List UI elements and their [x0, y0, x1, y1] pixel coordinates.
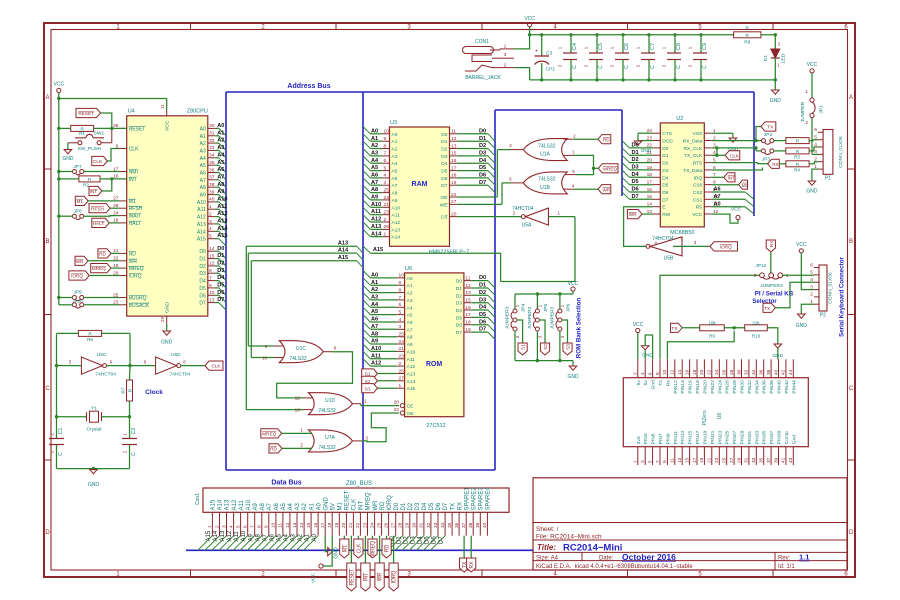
svg-text:D6: D6: [662, 190, 668, 196]
svg-text:R: R: [128, 388, 134, 392]
svg-text:PIN38: PIN38: [769, 380, 775, 394]
svg-text:WR: WR: [629, 212, 637, 217]
svg-text:28: 28: [729, 369, 735, 375]
svg-text:TX: TX: [767, 125, 774, 130]
svg-text:PIN26: PIN26: [725, 380, 731, 394]
svg-text:11: 11: [160, 104, 165, 109]
svg-text:10: 10: [662, 369, 668, 375]
svg-text:32: 32: [426, 522, 432, 528]
svg-text:CLK: CLK: [211, 364, 221, 369]
svg-text:D1: D1: [199, 257, 206, 263]
svg-text:D0: D0: [394, 502, 400, 510]
svg-text:A5: A5: [200, 163, 206, 169]
svg-text:PIN24: PIN24: [717, 380, 723, 394]
svg-text:OE: OE: [407, 411, 415, 417]
svg-text:27: 27: [399, 376, 405, 382]
svg-text:10: 10: [271, 522, 277, 528]
svg-text:5v: 5v: [636, 380, 642, 386]
svg-text:PIN42: PIN42: [784, 380, 790, 394]
svg-text:D1: D1: [479, 136, 486, 142]
svg-text:33: 33: [751, 457, 757, 463]
svg-text:31: 31: [744, 457, 750, 463]
svg-text:13: 13: [209, 297, 215, 303]
svg-text:D7: D7: [199, 301, 206, 307]
svg-text:D4: D4: [632, 172, 640, 178]
svg-text:D7: D7: [479, 327, 486, 333]
svg-text:U5B: U5B: [664, 256, 674, 262]
svg-text:U8: U8: [717, 413, 723, 420]
svg-text:Con1: Con1: [195, 493, 201, 505]
svg-text:3: 3: [209, 219, 212, 225]
svg-text:A0: A0: [371, 273, 378, 279]
svg-text:9: 9: [384, 136, 387, 142]
svg-text:IORQ: IORQ: [392, 571, 398, 584]
svg-text:BUSRQ: BUSRQ: [129, 296, 147, 302]
svg-text:RC2014−Mini: RC2014−Mini: [563, 543, 622, 554]
svg-text:A8: A8: [217, 182, 224, 188]
svg-text:VCC: VCC: [796, 242, 807, 248]
svg-text:5: 5: [384, 165, 387, 171]
svg-text:A7: A7: [714, 194, 721, 200]
svg-text:37: 37: [766, 457, 772, 463]
svg-text:PIN11: PIN11: [673, 431, 679, 444]
svg-text:A15: A15: [407, 386, 416, 392]
svg-text:M1: M1: [129, 199, 136, 205]
svg-text:IORQ: IORQ: [387, 495, 393, 511]
svg-text:2: 2: [300, 443, 303, 449]
svg-text:7: 7: [250, 525, 256, 528]
svg-text:RD: RD: [270, 447, 277, 452]
svg-text:JUMPER3: JUMPER3: [505, 306, 511, 329]
svg-text:3: 3: [814, 149, 817, 155]
svg-text:28: 28: [398, 522, 404, 528]
svg-text:6: 6: [243, 525, 249, 528]
svg-text:M1: M1: [742, 183, 749, 188]
svg-text:D0: D0: [662, 146, 668, 152]
svg-text:R6: R6: [87, 337, 93, 342]
svg-text:A4: A4: [217, 152, 225, 158]
svg-text:B: B: [45, 239, 49, 245]
svg-text:6: 6: [384, 158, 387, 164]
svg-text:U2: U2: [676, 116, 683, 122]
svg-text:A13: A13: [338, 241, 348, 247]
svg-text:22k: 22k: [752, 321, 760, 326]
svg-text:WR: WR: [373, 500, 379, 511]
svg-text:7: 7: [384, 151, 387, 157]
svg-text:RX: RX: [772, 162, 779, 167]
svg-text:11: 11: [278, 523, 284, 528]
svg-text:A1: A1: [309, 502, 315, 510]
svg-text:A9: A9: [253, 502, 259, 510]
svg-text:D6: D6: [479, 173, 486, 179]
svg-text:D0: D0: [441, 132, 447, 138]
svg-text:A15: A15: [217, 233, 227, 239]
svg-text:5: 5: [209, 234, 212, 240]
svg-text:5: 5: [647, 460, 653, 463]
svg-text:5: 5: [814, 135, 817, 141]
svg-text:Comp: Comp: [784, 431, 790, 444]
svg-text:RD: RD: [99, 252, 106, 257]
svg-text:A6: A6: [407, 320, 413, 326]
svg-text:A11: A11: [197, 207, 206, 213]
svg-text:Tx: Tx: [658, 380, 664, 386]
svg-text:S1: S1: [521, 344, 526, 350]
svg-text:A1: A1: [200, 134, 206, 140]
svg-text:A2: A2: [200, 141, 206, 147]
svg-text:9: 9: [662, 460, 668, 463]
svg-text:16: 16: [684, 369, 690, 375]
svg-text:A12: A12: [197, 215, 206, 221]
svg-text:R8: R8: [744, 40, 750, 45]
svg-text:A7: A7: [217, 174, 224, 180]
svg-text:PIN29: PIN29: [740, 430, 746, 444]
svg-text:WAIT: WAIT: [129, 214, 141, 220]
svg-text:PIN22: PIN22: [710, 380, 716, 394]
svg-text:GND: GND: [567, 374, 579, 380]
svg-text:D3: D3: [441, 154, 447, 160]
svg-text:SPARE4: SPARE4: [486, 487, 492, 511]
svg-text:PIN35: PIN35: [762, 430, 768, 444]
svg-text:C3: C3: [546, 51, 553, 57]
svg-text:A11: A11: [371, 353, 381, 359]
svg-text:A1: A1: [371, 136, 378, 142]
svg-text:IORQ: IORQ: [71, 274, 83, 279]
svg-text:15: 15: [209, 253, 215, 259]
svg-text:74LS32: 74LS32: [289, 356, 306, 362]
svg-text:D7: D7: [217, 297, 224, 303]
svg-text:A15: A15: [197, 237, 206, 243]
svg-text:A8: A8: [260, 502, 266, 510]
svg-text:A10: A10: [392, 205, 401, 211]
svg-text:74HCT04: 74HCT04: [95, 372, 116, 378]
svg-text:31: 31: [209, 131, 215, 137]
svg-text:CS1: CS1: [693, 197, 703, 203]
svg-text:40: 40: [209, 197, 215, 203]
svg-text:INT: INT: [90, 189, 98, 194]
svg-text:1.1: 1.1: [799, 553, 809, 562]
svg-text:29: 29: [160, 317, 165, 322]
svg-text:25: 25: [722, 457, 728, 463]
svg-text:30: 30: [412, 522, 418, 528]
svg-text:A11: A11: [371, 209, 381, 215]
svg-text:6: 6: [647, 372, 653, 375]
svg-text:12: 12: [209, 261, 215, 267]
svg-text:A2: A2: [371, 143, 378, 149]
svg-text:29: 29: [405, 522, 411, 528]
svg-text:VCC: VCC: [568, 281, 579, 287]
svg-text:D2: D2: [217, 261, 224, 267]
svg-text:VCC: VCC: [692, 212, 703, 218]
svg-text:CLK: CLK: [93, 159, 103, 164]
svg-text:D6: D6: [217, 290, 224, 296]
svg-text:SPARE3: SPARE3: [479, 487, 485, 511]
svg-text:DCD: DCD: [662, 139, 673, 145]
svg-text:A13: A13: [392, 227, 401, 233]
svg-text:A7: A7: [407, 327, 413, 333]
svg-text:R10: R10: [752, 333, 761, 338]
svg-text:RX_CLK: RX_CLK: [683, 146, 703, 152]
svg-text:GND: GND: [641, 148, 652, 154]
svg-text:PIN18: PIN18: [695, 380, 701, 394]
svg-text:A: A: [849, 95, 853, 101]
svg-text:37: 37: [209, 175, 215, 181]
svg-text:20: 20: [451, 211, 457, 217]
svg-text:C: C: [45, 386, 50, 392]
svg-text:D4: D4: [422, 502, 428, 510]
svg-text:PIN5: PIN5: [651, 433, 657, 444]
svg-text:40: 40: [482, 522, 488, 528]
svg-text:A1: A1: [392, 139, 398, 145]
svg-text:5V: 5V: [330, 503, 336, 510]
svg-text:2: 2: [633, 372, 639, 375]
svg-text:A3: A3: [392, 154, 398, 160]
svg-text:36: 36: [209, 167, 215, 173]
svg-text:PIN21: PIN21: [710, 430, 716, 444]
svg-text:R1: R1: [79, 131, 85, 136]
svg-text:D0: D0: [479, 128, 486, 134]
svg-text:27: 27: [729, 457, 735, 463]
svg-text:GND: GND: [165, 302, 171, 313]
svg-text:D3: D3: [662, 168, 668, 174]
svg-text:D4: D4: [441, 161, 447, 167]
svg-text:D0: D0: [632, 143, 639, 149]
svg-text:MREQ: MREQ: [129, 266, 144, 272]
svg-text:A14: A14: [218, 499, 224, 510]
svg-text:24: 24: [369, 522, 375, 528]
svg-text:3: 3: [384, 180, 387, 186]
svg-text:A9: A9: [392, 198, 398, 204]
svg-text:A4: A4: [371, 158, 379, 164]
svg-text:M1: M1: [76, 199, 83, 204]
svg-text:U3: U3: [390, 120, 397, 126]
svg-text:D3: D3: [217, 268, 224, 274]
svg-text:PIN33: PIN33: [754, 430, 760, 444]
svg-text:JP5: JP5: [543, 304, 549, 313]
svg-text:RX: RX: [469, 561, 475, 569]
svg-text:D6: D6: [632, 187, 639, 193]
svg-text:PIN25: PIN25: [725, 430, 731, 444]
svg-text:D5: D5: [479, 312, 486, 318]
svg-text:18: 18: [451, 173, 457, 179]
svg-text:JP6: JP6: [565, 304, 571, 313]
svg-text:20: 20: [699, 369, 705, 375]
svg-text:A13: A13: [197, 222, 206, 228]
svg-text:BUSACK: BUSACK: [129, 303, 150, 309]
svg-text:A15: A15: [338, 255, 348, 261]
svg-text:P1: P1: [825, 176, 831, 182]
svg-text:A1: A1: [217, 130, 224, 136]
svg-text:P2: P2: [820, 313, 826, 319]
svg-text:A6: A6: [371, 317, 378, 323]
svg-text:21: 21: [384, 202, 390, 208]
svg-text:U4: U4: [128, 109, 135, 115]
svg-text:Size: A4: Size: A4: [536, 555, 559, 561]
svg-text:GND: GND: [642, 353, 653, 359]
svg-text:PIN16: PIN16: [688, 380, 694, 394]
svg-text:15: 15: [306, 522, 312, 528]
svg-text:5: 5: [810, 270, 813, 276]
svg-text:IORQ: IORQ: [720, 245, 732, 250]
svg-text:R3: R3: [794, 154, 800, 159]
svg-text:PI / Serial KB: PI / Serial KB: [755, 291, 794, 298]
svg-text:44: 44: [788, 369, 794, 375]
svg-text:TX_CLK: TX_CLK: [684, 153, 703, 159]
svg-text:A5: A5: [281, 502, 287, 510]
svg-text:D1: D1: [401, 502, 407, 510]
svg-text:C: C: [624, 65, 630, 69]
svg-text:38: 38: [468, 522, 474, 528]
svg-text:43: 43: [788, 457, 794, 463]
svg-text:VCC: VCC: [807, 62, 818, 68]
svg-text:12: 12: [295, 396, 301, 402]
svg-text:PIN15: PIN15: [688, 430, 694, 444]
svg-text:5: 5: [235, 525, 241, 528]
svg-text:24: 24: [399, 339, 405, 345]
svg-text:A15: A15: [373, 247, 383, 253]
svg-text:MREQ: MREQ: [371, 541, 377, 556]
svg-text:12: 12: [670, 369, 676, 375]
svg-text:38: 38: [209, 182, 215, 188]
svg-text:TX: TX: [671, 326, 678, 331]
svg-text:A15: A15: [211, 499, 217, 510]
svg-text:74LS32: 74LS32: [318, 408, 335, 414]
svg-text:CS0: CS0: [693, 183, 703, 189]
svg-text:2: 2: [214, 525, 220, 528]
svg-text:JUMPER3: JUMPER3: [527, 306, 533, 329]
svg-text:VCC: VCC: [633, 322, 644, 328]
svg-text:D5: D5: [479, 165, 486, 171]
svg-text:D0: D0: [217, 246, 224, 252]
svg-text:A12: A12: [371, 361, 381, 367]
svg-text:GND: GND: [806, 189, 818, 195]
svg-text:2: 2: [399, 361, 402, 367]
svg-text:21: 21: [399, 346, 405, 352]
svg-text:A7: A7: [371, 324, 378, 330]
svg-text:A10: A10: [197, 200, 206, 206]
svg-text:C: C: [131, 452, 137, 456]
svg-text:D2: D2: [456, 293, 462, 299]
svg-text:D2: D2: [632, 157, 639, 163]
svg-text:Crystal: Crystal: [87, 427, 102, 433]
svg-text:13: 13: [465, 290, 471, 296]
svg-text:19: 19: [699, 457, 705, 463]
svg-text:D3: D3: [199, 271, 206, 277]
svg-text:A3: A3: [371, 151, 378, 157]
svg-text:PIN32: PIN32: [747, 380, 753, 394]
svg-text:D4: D4: [456, 308, 462, 314]
svg-text:35: 35: [759, 457, 765, 463]
svg-text:WR: WR: [129, 259, 138, 265]
svg-text:RD: RD: [603, 137, 610, 142]
svg-text:D1: D1: [217, 253, 224, 259]
svg-text:U5D: U5D: [171, 352, 181, 358]
svg-text:NMI: NMI: [129, 170, 138, 176]
svg-text:A4: A4: [407, 305, 413, 311]
svg-text:D0: D0: [456, 279, 462, 285]
svg-text:74LS32: 74LS32: [318, 445, 335, 451]
svg-text:3: 3: [810, 284, 813, 290]
svg-text:20: 20: [341, 522, 347, 528]
svg-text:10: 10: [399, 273, 405, 279]
svg-text:D1: D1: [456, 286, 462, 292]
svg-text:PIN12: PIN12: [673, 380, 679, 394]
svg-text:D1: D1: [662, 153, 668, 159]
svg-text:ROM: ROM: [426, 361, 443, 368]
svg-text:11: 11: [465, 275, 470, 281]
svg-text:3: 3: [221, 525, 227, 528]
svg-text:MREQ: MREQ: [366, 492, 372, 510]
svg-text:4: 4: [810, 277, 813, 283]
svg-text:A9: A9: [371, 339, 378, 345]
svg-text:A2: A2: [371, 287, 378, 293]
svg-text:A11: A11: [392, 213, 401, 219]
svg-text:SW1: SW1: [94, 131, 105, 137]
svg-text:PIZero: PIZero: [702, 410, 708, 425]
svg-text:Clock: Clock: [145, 389, 163, 396]
svg-text:35: 35: [209, 160, 215, 166]
svg-text:VCC: VCC: [54, 82, 65, 88]
svg-text:Sheet: /: Sheet: /: [536, 526, 559, 533]
svg-text:36: 36: [759, 369, 765, 375]
svg-text:JP1: JP1: [819, 105, 825, 114]
svg-text:6: 6: [810, 262, 813, 268]
svg-text:MREQ: MREQ: [262, 432, 276, 437]
svg-text:A3: A3: [295, 502, 301, 510]
svg-text:6: 6: [814, 127, 817, 133]
svg-text:2: 2: [814, 157, 817, 163]
svg-text:23: 23: [714, 457, 720, 463]
svg-text:A: A: [45, 95, 49, 101]
svg-text:A5: A5: [392, 169, 398, 175]
svg-text:PIN17: PIN17: [695, 430, 701, 444]
svg-text:10: 10: [262, 355, 268, 360]
svg-text:1: 1: [207, 525, 213, 528]
svg-text:GND: GND: [88, 482, 100, 488]
svg-text:A11: A11: [407, 357, 416, 363]
svg-text:A10: A10: [407, 349, 416, 355]
svg-text:74LS32: 74LS32: [538, 177, 555, 183]
svg-text:PIN36: PIN36: [762, 380, 768, 394]
svg-text:GND: GND: [161, 340, 173, 346]
svg-text:RESET: RESET: [345, 490, 351, 510]
svg-text:14: 14: [209, 246, 215, 252]
svg-text:A9: A9: [407, 342, 413, 348]
svg-text:12: 12: [451, 136, 457, 142]
svg-text:U1A: U1A: [540, 152, 550, 158]
svg-text:A1: A1: [407, 283, 413, 289]
svg-text:A6: A6: [714, 187, 721, 193]
svg-text:39: 39: [773, 457, 779, 463]
svg-text:14: 14: [299, 522, 305, 528]
svg-text:PIN27: PIN27: [732, 430, 738, 444]
svg-text:GND: GND: [770, 98, 782, 104]
svg-text:17: 17: [451, 165, 457, 171]
svg-text:25: 25: [376, 522, 382, 528]
svg-text:A4: A4: [392, 161, 398, 167]
svg-text:D3: D3: [479, 151, 486, 157]
svg-text:A2: A2: [302, 502, 308, 510]
svg-text:IORQ: IORQ: [129, 274, 142, 280]
svg-text:CLK: CLK: [129, 147, 139, 153]
svg-text:A11: A11: [239, 500, 245, 511]
svg-text:8: 8: [384, 143, 387, 149]
svg-text:31: 31: [419, 522, 425, 528]
svg-text:A6: A6: [217, 167, 224, 173]
svg-text:23: 23: [399, 354, 405, 360]
svg-text:R2: R2: [83, 183, 89, 188]
svg-text:MC68B50: MC68B50: [670, 230, 694, 236]
svg-text:18: 18: [692, 369, 698, 375]
